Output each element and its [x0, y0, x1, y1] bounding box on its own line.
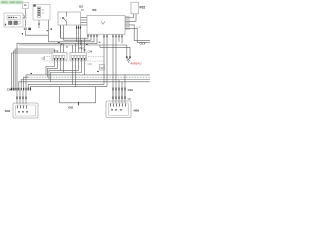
wire ground loop: [60, 87, 96, 103]
relay dark internals: [9, 21, 18, 25]
wire lower bus L2: [24, 77, 28, 87]
left row2: [16, 96, 17, 99]
wire module right r2: [125, 20, 136, 22]
svg-text:N09: N09: [134, 109, 140, 113]
N09 block: [106, 101, 131, 118]
U-loop tick: [77, 102, 80, 106]
conn2 box: [70, 53, 87, 61]
svg-text:C09: C09: [128, 88, 134, 92]
conn pin boxes: [53, 55, 85, 58]
svg-text:10: 10: [23, 27, 27, 31]
wire conn1 pin outs: [46, 60, 55, 75]
svg-text:SRS: AIR 8AG: SRS: AIR 8AG: [1, 1, 23, 5]
wire bus taps to block: [118, 80, 120, 104]
wire bus left L53: [12, 53, 53, 87]
text labels: [5, 4, 146, 113]
wire resistor drop: [38, 20, 40, 28]
wire conn2 pin outs: [72, 60, 74, 84]
C90 row: [11, 88, 12, 91]
wire B2 pin drops: [76, 25, 78, 42]
svg-text:3 C8: 3 C8: [136, 27, 141, 29]
dashed boundary: [44, 57, 104, 62]
fuse top box: [22, 2, 28, 8]
svg-text:CM2: CM2: [79, 47, 85, 50]
svg-text:P02: P02: [140, 5, 146, 9]
wire relay stub: [23, 17, 25, 19]
wire C90 row segments: [16, 90, 18, 96]
module V symbol: [101, 21, 105, 24]
B2 bottom pins: [76, 27, 77, 29]
wire fuse to center: [25, 30, 48, 35]
right row1: [112, 88, 113, 91]
fuse X symbol: [23, 15, 26, 19]
svg-text:N02: N02: [5, 109, 11, 113]
module right pin boxes: [126, 17, 129, 20]
wire U-loop outer: [28, 84, 104, 90]
wire lower bus L3: [21, 80, 150, 88]
wire fuse lower: [24, 19, 26, 26]
svg-text:C90: C90: [7, 88, 13, 92]
junction labels under B2: [58, 42, 60, 43]
resistor hatch: [38, 8, 40, 16]
wire B2 drop a: [60, 25, 62, 38]
wire lower bus L1: [26, 75, 150, 87]
splice X: [127, 58, 130, 63]
svg-text:G81: G81: [68, 105, 74, 109]
wire splice feed 2: [100, 45, 130, 56]
wire bus U2: [64, 25, 92, 40]
wire bus U1: [61, 25, 89, 38]
right row2: [112, 96, 113, 99]
N02 block: [13, 103, 38, 118]
wire bus left L49: [15, 49, 54, 87]
N02 block internals: [17, 106, 28, 113]
module box: [87, 16, 125, 35]
wire module right r3 exit: [125, 25, 150, 41]
svg-text:AIRBAG: AIRBAG: [130, 61, 142, 65]
wire right block row segments: [112, 90, 114, 96]
wire module right r4 exit: [125, 28, 150, 42]
wire fuse drop: [24, 9, 26, 15]
conn1 box: [52, 53, 67, 61]
resistor box: [33, 4, 50, 20]
wire module left stubs: [81, 17, 88, 19]
svg-text:B2: B2: [79, 4, 83, 8]
wire conn2 top stubs: [72, 45, 74, 53]
fuse top box mark: [24, 4, 26, 5]
resistor drop tick: [38, 24, 40, 25]
wire colour specks: [30, 28, 100, 74]
wire rail R1: [49, 60, 79, 80]
N09 block internals: [110, 104, 126, 111]
svg-text:W0: W0: [92, 8, 97, 12]
svg-text:C84: C84: [88, 63, 93, 66]
wire U-loop inner: [30, 87, 107, 91]
wire bus U5: [19, 45, 127, 56]
wire conn1 top stubs: [54, 49, 56, 53]
wire bus U4: [17, 35, 97, 87]
B2 switch symbol: [62, 12, 66, 25]
dark connector dashes: [11, 27, 131, 106]
svg-text:S2: S2: [100, 66, 104, 70]
wire lower bus L4: [19, 82, 150, 87]
module bottom pins: [87, 35, 88, 37]
svg-text:C84: C84: [88, 50, 93, 54]
wire bus U3: [49, 20, 95, 42]
splice ticks: [126, 56, 127, 58]
wire bus left L51: [13, 51, 57, 87]
wire module right r1: [125, 17, 134, 19]
label box S: [100, 65, 105, 71]
relay K box: [4, 2, 138, 118]
P02 box: [131, 2, 138, 14]
wire rail R2: [51, 60, 82, 82]
green title text: [0, 1, 23, 5]
wire module bottom drops: [103, 34, 105, 84]
B2 box: [58, 12, 81, 25]
wire P02 drops: [133, 14, 135, 18]
svg-text:1 3 5: 1 3 5: [54, 50, 60, 52]
svg-text:C8 X: C8 X: [140, 41, 146, 45]
svg-text:C8: C8: [42, 56, 46, 60]
